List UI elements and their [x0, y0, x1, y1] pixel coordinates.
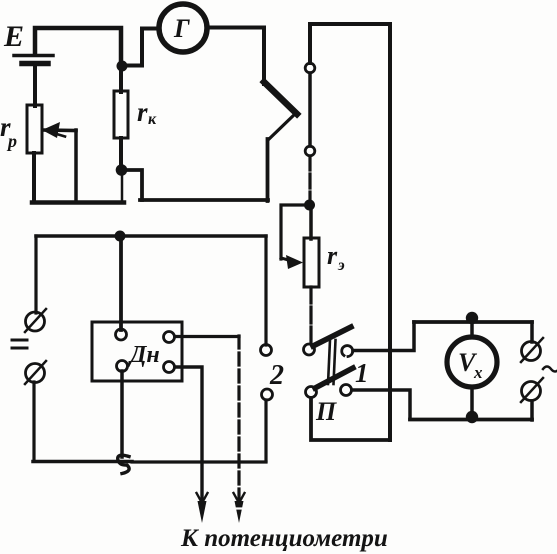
wire rp bottom — [32, 153, 36, 202]
wire lower O to loop — [530, 401, 534, 420]
arrow 2 head dashed — [233, 493, 245, 523]
galvanometer G circle — [159, 4, 207, 52]
box Dn — [92, 322, 182, 381]
svg-text:Дн: Дн — [128, 342, 160, 368]
wire node D to box Dn — [119, 236, 123, 330]
wire P pivot to bottom loop — [311, 398, 390, 440]
battery E label — [3, 20, 24, 53]
label P — [315, 397, 337, 426]
wire Dn top-right to arrow 2 — [175, 336, 239, 508]
terminal 2 lower circle — [262, 389, 273, 400]
node C junction dot — [304, 200, 315, 211]
Vx loop bottom wire — [410, 418, 532, 422]
resistor re — [304, 238, 319, 287]
terminal circle upper plug — [305, 63, 315, 73]
svg-text:П: П — [315, 397, 337, 426]
resistor rk — [114, 91, 128, 138]
Vx bottom junction dot — [466, 411, 478, 423]
svg-text:p: p — [6, 131, 17, 151]
label DC equals — [12, 340, 27, 348]
Dn terminal bottom-right — [164, 362, 175, 373]
Vx loop top wire — [414, 320, 532, 324]
label Vx — [458, 348, 483, 382]
switch P lower fixed contact — [341, 385, 352, 396]
terminal O upper left — [25, 309, 46, 332]
wire battery top to node A — [35, 28, 121, 62]
label re — [327, 241, 345, 274]
svg-text:r: r — [137, 97, 148, 127]
wire bottom bus to terminal 2 — [264, 400, 267, 461]
label G — [173, 14, 190, 43]
svg-text:Г: Г — [173, 14, 190, 43]
label rp — [0, 112, 17, 151]
Dn terminal top-left — [116, 329, 127, 340]
wire bottom right horizontal to switch — [140, 198, 268, 202]
bottom bus wire — [33, 460, 266, 464]
wire plug to node C — [308, 156, 311, 200]
wire top right loop — [310, 24, 390, 440]
switch P lower pivot — [306, 387, 317, 398]
wire rk bottom to node B — [119, 138, 123, 166]
wire galvanometer to switch top — [211, 28, 264, 85]
svg-text:x: x — [473, 363, 483, 382]
node D junction dot — [115, 231, 126, 242]
label 1 — [355, 358, 369, 388]
wire bottom left horizontal — [32, 200, 124, 205]
wire switch to bottom bus — [266, 139, 270, 201]
switch P lower blade — [315, 368, 353, 388]
wire Dn bottom-right to arrow 1 — [175, 367, 202, 508]
Vx top junction dot — [466, 312, 478, 324]
node B junction dot — [116, 164, 128, 176]
label Dn — [128, 342, 160, 368]
wire upper contact to Vx loop — [353, 322, 414, 351]
switch P upper pivot — [304, 344, 315, 355]
wire terminal 2 to middle bus — [264, 236, 267, 345]
AC tilde — [543, 367, 557, 372]
re wiper wire — [281, 205, 307, 259]
wire node B stub down — [121, 174, 124, 202]
resistor rp — [27, 105, 42, 153]
Dn terminal bottom-left — [117, 361, 128, 372]
terminal O upper right — [521, 338, 543, 362]
wire re bottom to switch P — [309, 287, 312, 344]
Dn terminal top-right — [164, 332, 175, 343]
label 2 — [269, 360, 284, 391]
wire dot to Vx — [470, 320, 474, 337]
wire node A to galvanometer — [122, 29, 156, 66]
wire node A to rk — [119, 66, 123, 92]
re wiper arrow — [281, 255, 303, 269]
wire node B jog to bottom bus — [124, 170, 142, 200]
terminal circle lower plug — [305, 146, 315, 156]
terminal O lower left — [25, 361, 46, 384]
wire lower O down — [32, 382, 35, 461]
switch P upper fixed contact — [342, 346, 353, 357]
switch P upper blade — [313, 327, 351, 346]
svg-text:1: 1 — [355, 358, 369, 388]
wire node C to re top — [309, 205, 313, 239]
middle bus wire — [36, 234, 266, 238]
svg-text:к: к — [148, 111, 157, 128]
voltmeter Vx circle — [447, 337, 497, 387]
wire Vx to bottom dot — [470, 388, 474, 416]
caption K potentiometru — [180, 525, 388, 552]
svg-text:К потенциометри: К потенциометри — [180, 525, 388, 552]
wire between plug circles — [308, 73, 312, 146]
switch P coupling bar — [328, 340, 336, 384]
rp wiper arrow — [42, 122, 76, 201]
label rk — [137, 97, 157, 128]
wire battery to rp — [33, 66, 37, 106]
svg-text:2: 2 — [269, 360, 284, 391]
battery E plates — [14, 56, 53, 64]
wire lower contact to Vx loop bottom — [352, 390, 410, 419]
switch blade return — [268, 113, 296, 140]
terminal 2 upper circle — [261, 345, 272, 356]
svg-text:E: E — [3, 20, 24, 53]
switch blade thick — [264, 82, 297, 114]
hook junction at bottom bus — [118, 455, 129, 473]
arrow 1 head — [197, 493, 208, 523]
svg-text:r: r — [327, 241, 338, 270]
Vx loop right top wire — [530, 322, 534, 342]
node A junction dot — [117, 61, 128, 72]
terminal O lower right — [521, 378, 543, 402]
wire Dn bottom-left down — [120, 371, 124, 457]
wire bus to DC terminal — [34, 236, 37, 313]
svg-text:э: э — [337, 257, 345, 274]
